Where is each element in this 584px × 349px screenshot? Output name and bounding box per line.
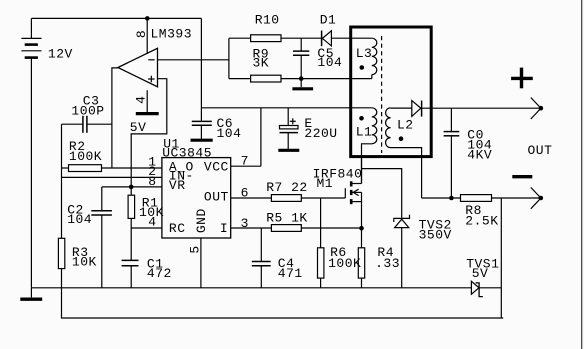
diode TVS2 350V <box>394 215 452 288</box>
diode D1 <box>320 12 352 46</box>
capacitor C6 104 <box>192 116 242 141</box>
capacitor C4 471 <box>252 228 303 288</box>
node - terminal <box>531 187 543 208</box>
battery B1 12V <box>21 18 72 287</box>
ground E cap <box>278 149 299 152</box>
resistor R4 .33 <box>358 228 400 288</box>
ground C6 <box>191 139 213 142</box>
svg-text:R10: R10 <box>255 12 280 27</box>
svg-text:6: 6 <box>241 185 249 200</box>
inductor L3 winding <box>352 38 377 78</box>
wire ground rail <box>31 287 471 289</box>
svg-text:.33: .33 <box>375 256 400 271</box>
svg-text:8: 8 <box>134 30 149 38</box>
node 12V rail junction <box>145 16 150 21</box>
svg-text:3K: 3K <box>253 56 270 71</box>
svg-text:100P: 100P <box>71 104 104 119</box>
wire R9 node to L3 <box>301 78 372 80</box>
node C0 return junction <box>449 196 454 201</box>
resistor R10 <box>229 12 322 41</box>
inductor L2 winding <box>386 108 422 198</box>
wire source sense <box>301 227 361 229</box>
svg-text:L1: L1 <box>356 124 373 139</box>
node VR junction <box>129 185 134 190</box>
ground battery <box>20 288 42 299</box>
resistor R2 100K <box>62 139 162 172</box>
svg-text:D1: D1 <box>320 12 337 27</box>
wire left node vertical <box>61 124 63 238</box>
svg-text:4: 4 <box>133 96 148 104</box>
op-amp U1 UC3845 IC body <box>162 137 231 239</box>
svg-text:VCC: VCC <box>204 159 229 174</box>
transistor M1 IRF840 <box>313 158 363 228</box>
resistor R1 10K <box>128 187 164 228</box>
svg-text:104: 104 <box>317 55 342 70</box>
capacitor C5 104 <box>293 38 342 87</box>
svg-text:M1: M1 <box>317 176 334 191</box>
symbol minus output <box>512 175 532 178</box>
wire R10-R9 left junction <box>228 38 230 78</box>
svg-text:L2: L2 <box>397 118 414 133</box>
svg-text:RC: RC <box>169 221 186 236</box>
svg-text:10K: 10K <box>72 255 97 270</box>
pin 6 U1 <box>231 185 272 200</box>
ground C5 <box>292 87 313 90</box>
wire 12V rail drop to VCC rail <box>200 18 202 121</box>
wire op-amp inverting input <box>158 59 229 61</box>
resistor R9 3K <box>229 47 301 82</box>
svg-text:GND: GND <box>194 208 209 233</box>
svg-text:471: 471 <box>278 266 303 281</box>
svg-text:100K: 100K <box>69 149 102 164</box>
svg-text:L3: L3 <box>356 46 373 61</box>
svg-text:104: 104 <box>67 212 92 227</box>
node source junction <box>359 226 364 231</box>
capacitor C0 104 4KV <box>444 108 493 198</box>
svg-text:8: 8 <box>148 174 156 189</box>
pin 5 U1 <box>187 238 202 288</box>
transformer T1 core box <box>351 27 432 157</box>
svg-text:OUT: OUT <box>204 190 229 205</box>
wire VCC riser <box>260 108 262 166</box>
diode D2 output rectifier <box>412 101 422 117</box>
svg-text:100K: 100K <box>328 256 361 271</box>
resistor R7 22 <box>266 180 308 202</box>
svg-text:5V: 5V <box>130 120 147 135</box>
ground op-amp pin4 <box>136 112 159 115</box>
capacitor C1 472 <box>122 228 172 288</box>
wire op-amp output drop <box>112 68 118 168</box>
wire bottom return rail <box>62 288 504 318</box>
node + terminal <box>531 98 543 120</box>
svg-text:4KV: 4KV <box>467 148 492 163</box>
symbol plus output <box>511 68 533 89</box>
diode TVS1 5V <box>466 257 501 297</box>
pin 8 LM393 <box>134 18 149 53</box>
svg-text:OUT: OUT <box>528 143 553 158</box>
wire gate <box>301 197 345 199</box>
svg-text:5: 5 <box>187 245 202 253</box>
pin 3 U1 <box>231 216 272 231</box>
svg-text:5V: 5V <box>472 266 489 281</box>
border right edge <box>581 0 583 349</box>
op-amp U2 LM393 <box>118 27 192 87</box>
svg-text:104: 104 <box>217 126 242 141</box>
transformer core dashed line <box>381 36 383 153</box>
wire pin8 5V net <box>102 186 162 188</box>
resistor R8 2.5K <box>461 195 541 229</box>
node L3 phase dot <box>360 65 365 70</box>
resistor R5 1K <box>266 211 308 232</box>
node L2 phase dot <box>399 136 404 141</box>
node L1 phase dot <box>359 116 364 121</box>
wire 12V top rail <box>31 17 201 19</box>
wire positive output <box>422 107 541 109</box>
wire pin2 <box>62 176 162 178</box>
wire VCC rail <box>201 107 371 109</box>
pin 4 LM393 <box>133 90 148 112</box>
svg-text:I: I <box>220 221 228 236</box>
svg-text:4: 4 <box>148 215 156 230</box>
svg-text:472: 472 <box>147 266 172 281</box>
svg-text:2.5K: 2.5K <box>465 214 498 229</box>
wire pin4 <box>131 227 162 229</box>
svg-text:350V: 350V <box>419 227 452 242</box>
inductor L1 winding <box>356 108 377 184</box>
resistor R3 10K <box>58 238 96 287</box>
wire minus drop <box>500 198 502 318</box>
capacitor C2 104 <box>67 187 112 288</box>
svg-text:7: 7 <box>241 154 249 169</box>
svg-text:12V: 12V <box>48 46 73 61</box>
svg-text:LM393: LM393 <box>151 27 193 42</box>
node C5-R9 junction <box>299 76 304 81</box>
wire drain snubber tap <box>362 169 402 218</box>
wire return to R8 <box>422 197 461 199</box>
capacitor E 220U <box>280 108 338 149</box>
wire op-amp non-inverting to 5V node <box>131 79 167 187</box>
capacitor C3 100P <box>62 94 112 133</box>
svg-text:3: 3 <box>241 216 249 231</box>
svg-text:VR: VR <box>169 178 186 193</box>
pin 7 U1 <box>231 154 261 169</box>
resistor R6 100K <box>318 198 362 288</box>
svg-text:R5 1K: R5 1K <box>266 211 308 226</box>
svg-text:220U: 220U <box>304 126 337 141</box>
svg-text:R7 22: R7 22 <box>266 180 308 195</box>
